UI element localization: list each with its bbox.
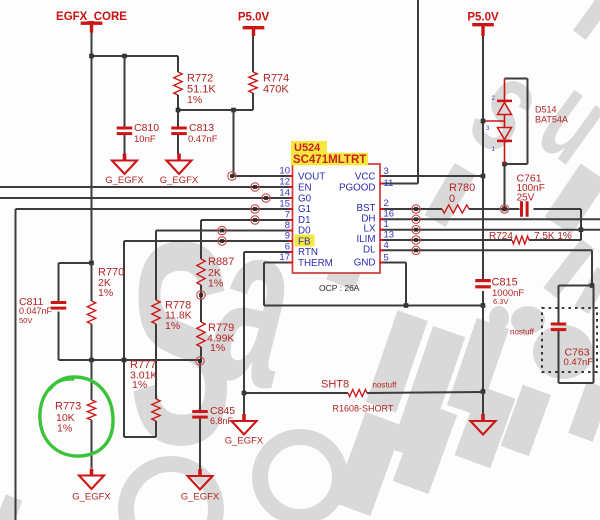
- watermark band lower C: [454, 386, 515, 469]
- watermark fragment m: [326, 244, 368, 290]
- svg-text:G1: G1: [298, 204, 311, 215]
- svg-text:PGOOD: PGOOD: [339, 183, 375, 194]
- power flag P5.0V right: [472, 23, 494, 26]
- svg-text:VCC: VCC: [355, 172, 376, 183]
- svg-text:0.047nF: 0.047nF: [19, 306, 53, 316]
- svg-text:R724: R724: [489, 231, 513, 242]
- svg-text:BAT54A: BAT54A: [535, 115, 568, 125]
- wire DL drop: [591, 250, 593, 285]
- wire C810 column: [124, 56, 126, 127]
- svg-text:nostuff: nostuff: [373, 381, 398, 390]
- wire SHT8 rail: [244, 392, 348, 394]
- diode D514: [505, 78, 528, 80]
- capacitor C810: [117, 127, 133, 130]
- wire C811 top route: [58, 312, 60, 361]
- svg-text:EGFX_CORE: EGFX_CORE: [56, 11, 127, 23]
- wire pin2 BST row: [380, 208, 442, 210]
- watermark band right mid1: [545, 164, 600, 235]
- svg-text:DH: DH: [361, 213, 375, 224]
- watermark band upper n0: [366, 310, 428, 412]
- svg-text:4: 4: [384, 240, 389, 251]
- svg-text:GND: GND: [354, 258, 376, 269]
- svg-text:50V: 50V: [19, 316, 32, 325]
- wire pin8 D0 row: [156, 230, 293, 232]
- junction VCC P5: [481, 174, 486, 179]
- svg-text:13: 13: [384, 230, 395, 241]
- wire to right gnd: [482, 392, 484, 416]
- wire C815 to SHT8 rail: [482, 306, 484, 392]
- junction marker pin14: [262, 194, 270, 202]
- resistor R777: [152, 399, 160, 421]
- wire C763 loop: [559, 285, 593, 287]
- svg-text:10: 10: [279, 166, 290, 177]
- junction GND5 bottom: [404, 303, 409, 308]
- ground G_EGFX R773: [90, 469, 94, 477]
- FB highlight: [295, 235, 315, 247]
- svg-text:OCP : 26A: OCP : 26A: [319, 283, 360, 293]
- watermark blob small: [489, 306, 509, 330]
- svg-text:25V: 25V: [517, 193, 535, 204]
- ground G_EGFX C845: [198, 469, 202, 477]
- watermark band lower A: [333, 412, 403, 516]
- watermark fragment S: [129, 183, 233, 505]
- wire R772-R774 rail: [178, 109, 253, 111]
- wire PGOOD riser: [417, 0, 419, 184]
- svg-text:7: 7: [285, 210, 290, 221]
- svg-text:FB: FB: [298, 237, 311, 248]
- resistor R724: [512, 236, 529, 244]
- svg-text:12: 12: [279, 177, 290, 188]
- U524 pin stubs: [289, 175, 294, 177]
- svg-text:16: 16: [384, 209, 395, 220]
- watermark band d ascender: [543, 239, 595, 298]
- wire C813 column: [177, 110, 179, 127]
- svg-text:1%: 1%: [210, 342, 225, 354]
- watermark band lower E: [568, 381, 600, 442]
- watermark ring o1 bottom: [126, 464, 216, 520]
- svg-text:3: 3: [384, 166, 389, 177]
- svg-text:P5.0V: P5.0V: [467, 12, 499, 24]
- resistor R770: [87, 301, 95, 324]
- resistor R779: [197, 322, 205, 347]
- svg-text:nostuff: nostuff: [510, 328, 535, 337]
- capacitor C811: [51, 301, 67, 304]
- wire pin13 ILIM row: [380, 239, 512, 241]
- svg-text:1%: 1%: [208, 278, 223, 290]
- ground right: [481, 414, 485, 422]
- svg-text:C810: C810: [134, 122, 159, 134]
- junction markers right pins: [412, 205, 420, 213]
- svg-text:2: 2: [384, 198, 389, 209]
- svg-text:1%: 1%: [98, 287, 113, 299]
- wire pin15 G1 row: [16, 208, 293, 210]
- svg-text:470K: 470K: [263, 84, 289, 96]
- svg-text:G_EGFX: G_EGFX: [160, 175, 199, 186]
- wire R887-R779 link: [200, 285, 202, 322]
- wire pin4 DL row: [380, 249, 592, 251]
- svg-text:6: 6: [285, 242, 290, 253]
- wire R774 leads: [252, 36, 254, 73]
- label U524 highlighted: [291, 141, 327, 154]
- watermark fragment u top right: [516, 50, 600, 189]
- label SC471MLTRT highlighted: [291, 153, 368, 166]
- watermark band top corner: [573, 0, 600, 40]
- svg-text:15: 15: [279, 199, 290, 210]
- watermark ring o2 bottom: [260, 437, 340, 517]
- wire D514 middle tap: [483, 120, 505, 122]
- wire G1 left drop: [15, 209, 17, 520]
- junction BST-LX: [579, 227, 584, 232]
- svg-text:1%: 1%: [187, 94, 202, 106]
- watermark band left of diode: [425, 163, 476, 227]
- wire pin12 EN row: [0, 186, 293, 188]
- wire pin6 RTN row: [244, 251, 293, 253]
- svg-text:8: 8: [285, 220, 290, 231]
- watermark fragment s top right: [446, 31, 571, 182]
- capacitor C815: [475, 279, 491, 282]
- svg-text:U524: U524: [294, 142, 321, 154]
- watermark blob d bowl: [533, 325, 593, 379]
- junction C810 tap: [122, 54, 127, 59]
- svg-text:10nF: 10nF: [134, 134, 156, 145]
- svg-text:D0: D0: [298, 226, 311, 237]
- svg-text:SHT8: SHT8: [321, 379, 349, 391]
- svg-text:6.3V: 6.3V: [493, 297, 508, 306]
- junction SHT8 left: [242, 391, 247, 396]
- capacitor C845: [192, 410, 208, 413]
- svg-text:G_EGFX: G_EGFX: [181, 492, 220, 503]
- wire divider rail: [59, 359, 201, 361]
- junction R772 bottom: [176, 108, 181, 113]
- svg-text:R773: R773: [55, 401, 81, 413]
- wire R772 leads: [177, 56, 179, 72]
- svg-text:G_EGFX: G_EGFX: [72, 492, 111, 503]
- capacitor C813: [171, 127, 187, 130]
- svg-text:14: 14: [279, 188, 290, 199]
- svg-text:1%: 1%: [165, 320, 180, 332]
- svg-text:D1: D1: [298, 215, 311, 226]
- svg-text:P5.0V: P5.0V: [238, 12, 270, 24]
- resistor R780: [442, 205, 469, 213]
- resistor R772: [174, 72, 182, 95]
- junction SHT8 right: [481, 389, 486, 394]
- ground G_EGFX C810: [123, 154, 127, 162]
- wire C815 bottom lead: [482, 291, 484, 306]
- wire FB drop: [123, 241, 125, 360]
- resistor R774: [249, 72, 257, 93]
- wire THERM loop: [263, 263, 265, 306]
- junction marker pin8: [218, 226, 226, 234]
- svg-text:0: 0: [449, 193, 455, 205]
- svg-text:G_EGFX: G_EGFX: [105, 175, 144, 186]
- wire D1 drop to R887: [200, 220, 202, 259]
- watermark blob i: [511, 306, 545, 334]
- junction marker pin15: [251, 205, 259, 213]
- watermark band lower B: [393, 402, 457, 494]
- wire pin5 GND row: [380, 262, 406, 264]
- svg-text:0.47nF: 0.47nF: [188, 134, 218, 145]
- watermark band upper f: [447, 318, 509, 416]
- wire EGFX_CORE vertical: [91, 33, 93, 264]
- wire R773 leads: [91, 360, 93, 400]
- junction marker pin9: [218, 237, 226, 245]
- junction marker rail right: [196, 357, 204, 365]
- wire D514 bottom to BST: [504, 164, 506, 209]
- svg-text:9: 9: [285, 231, 290, 242]
- wire BST corner drop: [580, 209, 582, 240]
- wire R779 bottom lead: [200, 347, 202, 361]
- watermark fragment a: [190, 171, 321, 437]
- wire top bus: [92, 55, 179, 57]
- wire P5.0V main vertical: [482, 36, 484, 280]
- svg-text:SC471MLTRT: SC471MLTRT: [293, 154, 366, 166]
- svg-text:11: 11: [384, 178, 394, 189]
- svg-text:5: 5: [384, 253, 389, 264]
- svg-text:G0: G0: [298, 194, 312, 205]
- green annotation circle R773: [40, 377, 113, 456]
- junction marker pin7: [251, 216, 259, 224]
- wire RTN drop: [243, 252, 245, 393]
- wire pin1 LX row: [380, 229, 600, 231]
- junction D514 bottom: [502, 162, 507, 167]
- power flag P5.0V left: [243, 26, 265, 29]
- wire R777 bottom loop: [155, 421, 157, 437]
- junction marker pin10: [228, 172, 236, 180]
- svg-text:1%: 1%: [132, 379, 147, 391]
- wire pin14 G0 row: [0, 197, 293, 199]
- junction EGFX C811: [89, 261, 94, 266]
- wire C845 leads: [199, 361, 201, 410]
- svg-text:C813: C813: [189, 122, 214, 134]
- wire pin10 VOUT row: [234, 175, 293, 177]
- ground G_EGFX C813: [177, 154, 181, 162]
- capacitor C763 nostuff: [542, 308, 597, 372]
- wire pin16 DH row: [380, 218, 600, 220]
- resistor R887: [197, 259, 205, 285]
- junction VOUT tap: [231, 108, 236, 113]
- wire pin7 D1 row: [201, 219, 293, 221]
- junction C815 bottom: [481, 303, 486, 308]
- svg-text:RTN: RTN: [298, 247, 318, 258]
- svg-text:1: 1: [384, 219, 389, 230]
- watermark band lower D: [501, 385, 551, 456]
- wire pin11 PGOOD row: [380, 183, 418, 185]
- junction rail R770: [89, 358, 94, 363]
- svg-text:17: 17: [279, 252, 290, 263]
- resistor SHT8 nostuff: [348, 390, 367, 397]
- svg-text:D514: D514: [535, 105, 557, 115]
- ground RTN: [242, 414, 246, 422]
- junction EGFX bus: [89, 54, 94, 59]
- svg-text:DL: DL: [363, 244, 376, 255]
- wire VOUT drop: [233, 110, 235, 176]
- svg-text:7.5K 1%: 7.5K 1%: [534, 231, 572, 242]
- capacitor C761: [520, 201, 523, 217]
- watermark bit right edge: [575, 267, 600, 314]
- svg-text:C815: C815: [492, 277, 518, 289]
- junction DL C763: [590, 283, 595, 288]
- wire pin17 THERM row: [264, 262, 293, 264]
- wire pin3 VCC row: [380, 175, 483, 177]
- svg-text:1%: 1%: [57, 423, 72, 435]
- junction marker pin12: [251, 183, 259, 191]
- power flag EGFX_CORE: [81, 22, 103, 25]
- resistor R778: [152, 300, 160, 324]
- watermark band upper n2: [391, 326, 465, 460]
- watermark bit corner: [0, 494, 23, 520]
- wire R770 leads: [91, 263, 93, 301]
- svg-text:VOUT: VOUT: [298, 172, 325, 183]
- wire RTN gnd lead: [243, 393, 245, 414]
- IC U524 box: [293, 164, 381, 273]
- junction rail FB: [122, 358, 127, 363]
- svg-text:R1608-SHORT: R1608-SHORT: [333, 404, 394, 414]
- svg-text:G_EGFX: G_EGFX: [225, 436, 264, 447]
- junction marker R887 R779: [197, 291, 205, 299]
- wire R778-R777 link: [155, 324, 157, 399]
- junction marker BST node: [500, 205, 508, 213]
- svg-text:6.8nF: 6.8nF: [210, 416, 234, 426]
- resistor R773: [87, 400, 95, 420]
- wire D0 drop to R778: [155, 231, 157, 301]
- svg-text:0.47nF: 0.47nF: [564, 357, 594, 368]
- svg-text:THERM: THERM: [298, 258, 333, 269]
- svg-text:EN: EN: [298, 183, 312, 194]
- wire pin9 FB row: [124, 240, 293, 242]
